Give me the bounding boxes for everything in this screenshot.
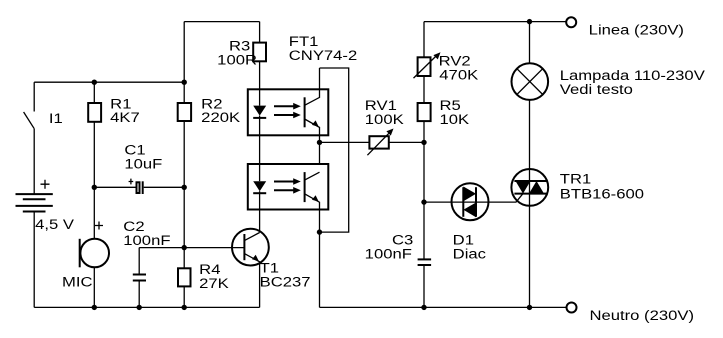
- svg-text:BC237: BC237: [260, 274, 311, 289]
- terminal Neutro: [567, 303, 577, 313]
- terminal Linea: [566, 17, 576, 27]
- svg-text:R5: R5: [440, 98, 461, 113]
- svg-text:Vedi testo: Vedi testo: [560, 82, 633, 97]
- node junction R1 top: [92, 80, 97, 85]
- switch I1: [33, 82, 35, 111]
- phototransistor 2 of FT1: [304, 172, 306, 202]
- capacitor C1 10uF: [94, 186, 135, 188]
- svg-text:RV1: RV1: [365, 98, 397, 113]
- wire top-left horizontal: [34, 81, 184, 83]
- svg-text:R4: R4: [199, 262, 221, 277]
- battery B1 4,5V: [16, 193, 53, 195]
- svg-text:R3: R3: [229, 38, 250, 53]
- svg-text:TR1: TR1: [560, 171, 591, 186]
- svg-text:C3: C3: [392, 233, 413, 248]
- svg-text:4,5 V: 4,5 V: [35, 217, 74, 232]
- svg-text:220K: 220K: [201, 110, 240, 125]
- LED 2 of FT1: [253, 181, 266, 191]
- phototransistor 1 of FT1: [304, 97, 306, 127]
- svg-text:100R: 100R: [217, 52, 257, 67]
- light arrows 1: [274, 105, 294, 107]
- wire top right horizontal: [424, 21, 566, 23]
- svg-text:D1: D1: [453, 233, 474, 248]
- resistor R4 27K: [178, 268, 191, 286]
- capacitor C2 100nF: [138, 248, 140, 274]
- optocoupler FT1 CNY74-2 box 1: [248, 89, 328, 135]
- resistor R5 10K: [418, 103, 431, 121]
- lamp Lampada: [529, 22, 531, 64]
- wire C2 to T1 base: [139, 247, 244, 249]
- node junction opto emitter1/RV1: [317, 140, 322, 145]
- wire bottom-left rail: [34, 306, 259, 308]
- wire bottom right rail: [320, 306, 567, 308]
- wire emitter2 down to bottom rail: [319, 232, 321, 307]
- svg-text:27K: 27K: [199, 276, 229, 291]
- svg-text:CNY74-2: CNY74-2: [289, 48, 357, 63]
- node junction TR1 bottom: [527, 305, 532, 310]
- svg-text:Diac: Diac: [453, 247, 487, 262]
- resistor R3 100R: [259, 22, 261, 43]
- node junction lamp top: [527, 19, 532, 24]
- svg-text:T1: T1: [260, 261, 279, 276]
- node junction R4 bottom: [182, 305, 187, 310]
- potentiometer RV2 470K: [423, 22, 425, 58]
- resistor R1 4K7: [93, 82, 95, 103]
- capacitor C3 100nF: [423, 202, 425, 259]
- svg-text:4K7: 4K7: [110, 110, 140, 125]
- node junction C2 bottom: [137, 305, 142, 310]
- node junction R1/C1: [92, 185, 97, 190]
- svg-text:Lampada 110-230V: Lampada 110-230V: [560, 68, 705, 83]
- wire opto collector to rail: [320, 68, 349, 232]
- microphone MIC: [80, 239, 109, 268]
- svg-text:10K: 10K: [440, 112, 470, 127]
- triac TR1 BTB16-600: [529, 100, 531, 308]
- svg-text:100nF: 100nF: [123, 233, 170, 248]
- svg-text:Linea (230V): Linea (230V): [589, 23, 684, 38]
- svg-text:FT1: FT1: [289, 34, 319, 49]
- node junction base/R2/R4 column: [182, 245, 187, 250]
- svg-text:R2: R2: [201, 96, 222, 111]
- svg-text:Neutro (230V): Neutro (230V): [590, 308, 695, 323]
- node junction diac row: [421, 199, 426, 204]
- node junction C1/R2 column: [182, 185, 187, 190]
- svg-text:C1: C1: [124, 143, 145, 158]
- LED 1 of FT1: [253, 106, 266, 116]
- svg-text:I1: I1: [49, 111, 63, 126]
- node junction MIC bottom: [92, 305, 97, 310]
- svg-text:470K: 470K: [439, 67, 478, 82]
- svg-text:RV2: RV2: [439, 53, 471, 68]
- transistor T1 BC237: [232, 229, 269, 266]
- node junction RV1/R5/C3: [421, 140, 426, 145]
- node junction C3 bottom: [421, 305, 426, 310]
- node junction opto emitter2: [317, 229, 322, 234]
- wire top mid horizontal: [184, 21, 259, 23]
- svg-text:C2: C2: [123, 219, 144, 234]
- wire diac to TR1 gate: [489, 194, 524, 203]
- resistor R2 220K: [183, 22, 185, 103]
- svg-text:MIC: MIC: [62, 274, 93, 289]
- wire battery negative lead: [33, 212, 35, 308]
- node junction R2 top: [182, 80, 187, 85]
- optocoupler FT1 box 2: [248, 164, 328, 210]
- diac D1: [424, 201, 452, 203]
- svg-text:100K: 100K: [365, 112, 404, 127]
- trimmer RV1 100K: [320, 141, 370, 143]
- light arrows 2: [274, 181, 294, 183]
- svg-text:R1: R1: [110, 96, 131, 111]
- svg-text:10uF: 10uF: [124, 157, 162, 172]
- svg-text:BTB16-600: BTB16-600: [560, 186, 644, 201]
- svg-text:100nF: 100nF: [365, 247, 412, 262]
